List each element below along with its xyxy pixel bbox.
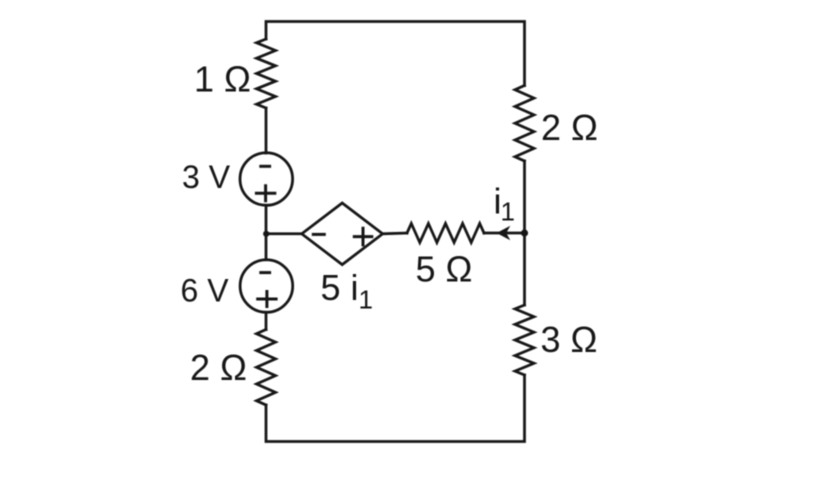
resistor 3 Ω (R4, lower-right branch) — [515, 305, 534, 375]
wire 3V source to node A — [265, 205, 268, 234]
svg-text:1 Ω: 1 Ω — [194, 59, 251, 100]
wire top rail — [266, 22, 525, 86]
V1 minus sign — [261, 165, 270, 168]
wire bottom rail — [266, 375, 525, 442]
wire R1 to 3V source — [265, 108, 268, 153]
wire dependent source to R5 — [383, 232, 407, 236]
svg-text:6 V: 6 V — [181, 273, 230, 309]
wire R5 to node B — [484, 232, 525, 235]
current arrow i1 (points left) — [498, 227, 509, 239]
wire 6V source to R2 — [265, 312, 268, 329]
V2 plus sign — [258, 292, 276, 307]
resistor 2 Ω (R3, upper-right branch) — [515, 86, 534, 162]
resistor 1 Ω (R1, upper-left branch) — [257, 39, 276, 108]
wire R3 to node B — [523, 161, 526, 233]
svg-text:3 V: 3 V — [182, 159, 231, 195]
voltage source 3 V (V1) — [240, 153, 293, 206]
svg-text:3 Ω: 3 Ω — [541, 319, 598, 360]
svg-text:2 Ω: 2 Ω — [190, 347, 247, 388]
resistor 2 Ω (R2, lower-left branch) — [257, 330, 276, 406]
svg-text:5 Ω: 5 Ω — [416, 249, 473, 290]
svg-text:2 Ω: 2 Ω — [541, 107, 598, 148]
V1 plus sign — [256, 186, 274, 201]
svg-text:5 i: 5 i — [321, 267, 359, 308]
resistor 5 Ω (R5, middle branch) — [407, 224, 484, 243]
V2 minus sign — [261, 271, 270, 274]
node B junction dot — [521, 229, 528, 236]
svg-text:1: 1 — [501, 196, 515, 226]
wire node A to dependent source — [266, 232, 302, 235]
wire node A to 6V source — [265, 234, 268, 260]
dependent source 5 i1 (diamond) — [302, 203, 383, 265]
svg-text:1: 1 — [359, 285, 373, 315]
wire node B to R4 — [523, 233, 526, 305]
voltage source 6 V (V2) — [240, 260, 293, 313]
dependent source minus sign — [313, 233, 324, 236]
node A junction dot — [263, 231, 269, 237]
dependent source plus sign — [354, 228, 372, 245]
